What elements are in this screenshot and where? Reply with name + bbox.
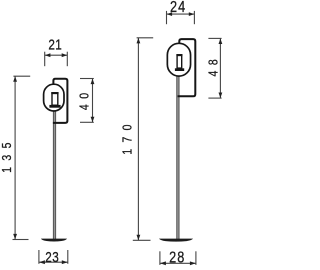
svg-text:48: 48 [207, 54, 221, 77]
svg-text:21: 21 [48, 36, 62, 53]
svg-text:170: 170 [121, 118, 135, 155]
svg-text:135: 135 [0, 136, 14, 173]
svg-text:28: 28 [169, 249, 185, 266]
svg-text:24: 24 [170, 0, 186, 16]
svg-text:23: 23 [45, 249, 59, 266]
svg-text:40: 40 [78, 87, 92, 110]
